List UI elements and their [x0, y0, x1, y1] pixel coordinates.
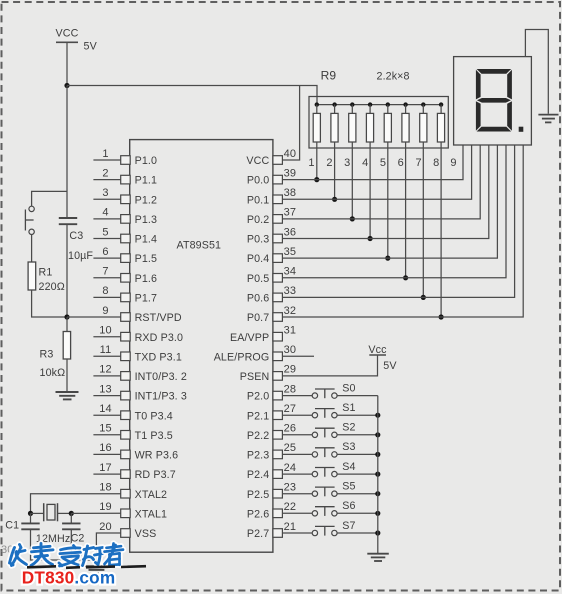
pin 5 (P1.4) box and number	[102, 226, 157, 245]
label S4	[342, 461, 355, 473]
svg-text:11: 11	[100, 344, 112, 356]
svg-text:INT0/P3. 2: INT0/P3. 2	[135, 371, 187, 383]
svg-text:R1: R1	[39, 267, 53, 279]
pin 31 (EA/VPP) box and number	[230, 325, 296, 344]
svg-text:P0.4: P0.4	[247, 253, 269, 265]
svg-text:1: 1	[308, 157, 314, 169]
resistor R3	[63, 332, 70, 360]
pin 14 (T0 P3.4) box and number	[99, 403, 173, 422]
wire pin 20 VSS to ground	[96, 533, 120, 566]
wire R3 to ground	[66, 359, 68, 392]
wire display common to ground	[525, 30, 548, 114]
svg-text:RD P3.7: RD P3.7	[135, 469, 176, 481]
svg-text:S0: S0	[342, 382, 355, 394]
wire stub pin 10	[93, 336, 120, 338]
pin 29 (PSEN) box and number	[240, 364, 296, 383]
svg-text:P2.1: P2.1	[247, 410, 269, 422]
wire P0.2 (pin 37) to display pin 3	[282, 145, 480, 219]
wire pin 29 to Vcc	[282, 355, 377, 376]
watermark black shadow streaks	[27, 566, 146, 568]
wire pin 19 XTAL1	[71, 512, 120, 514]
svg-text:10µF: 10µF	[68, 250, 93, 262]
svg-text:XTAL1: XTAL1	[135, 508, 167, 520]
pin 9 (RST/VPD) box and number	[102, 305, 182, 324]
wire stub pin 30	[282, 355, 314, 357]
svg-text:P0.5: P0.5	[247, 273, 269, 285]
pin 18 (XTAL2) box and number	[99, 482, 167, 501]
pin 36 (P0.3) box and number	[247, 226, 296, 245]
switch S2	[312, 428, 337, 437]
svg-text:VCC: VCC	[246, 155, 269, 167]
wire pin 24 to switch S4	[282, 473, 312, 475]
svg-text:3: 3	[102, 187, 108, 199]
svg-text:S7: S7	[342, 520, 355, 532]
wire R9 element 3 to P0.2 row	[351, 142, 353, 219]
svg-text:5V: 5V	[84, 41, 98, 53]
pin 40 (VCC) box and number	[246, 148, 296, 167]
pin 7 (P1.6) box and number	[102, 266, 157, 285]
resistor R9 element 5	[384, 105, 391, 142]
switch S4	[312, 468, 337, 477]
wire pin 26 to switch S2	[282, 434, 312, 436]
wire P0.0 (pin 39) to display pin 1	[282, 145, 463, 180]
svg-text:INT1/P3. 3: INT1/P3. 3	[135, 391, 187, 403]
resistor R9 element 2	[331, 105, 338, 142]
label R3	[40, 348, 54, 360]
svg-text:T0 P3.4: T0 P3.4	[135, 410, 173, 422]
wire R9 element 1 to P0.0 row	[316, 142, 318, 180]
svg-text:15: 15	[99, 423, 111, 435]
wire stub pin 16	[93, 453, 120, 455]
wire pin 25 to switch S3	[282, 453, 312, 455]
pin 17 (RD P3.7) box and number	[99, 462, 176, 481]
svg-text:10kΩ: 10kΩ	[40, 367, 66, 379]
capacitor C2	[62, 523, 80, 529]
svg-text:25: 25	[284, 442, 296, 454]
svg-text:38: 38	[284, 187, 296, 199]
svg-text:22: 22	[284, 501, 296, 513]
svg-text:2: 2	[102, 167, 108, 179]
svg-text:ALE/PROG: ALE/PROG	[214, 351, 270, 363]
display decimal point	[519, 127, 524, 132]
svg-text:16: 16	[99, 442, 111, 454]
watermark DT830.com	[22, 567, 116, 587]
wire RST node to chip pin 9	[67, 316, 121, 318]
svg-text:P1.0: P1.0	[135, 155, 157, 167]
svg-text:33: 33	[284, 285, 296, 297]
wire C1 to ground rail	[31, 529, 97, 560]
pin 37 (P0.2) box and number	[247, 207, 296, 226]
display segment C	[507, 101, 512, 131]
wire R9 element 5 to P0.4 row	[387, 142, 389, 258]
pin number 9 of R9	[450, 157, 456, 169]
svg-text:3: 3	[344, 157, 350, 169]
svg-text:6: 6	[398, 157, 404, 169]
pin number 6 of R9	[398, 157, 404, 169]
wire switch common rail	[377, 396, 379, 554]
resistor R9 element 4	[366, 105, 373, 142]
label S6	[342, 500, 355, 512]
svg-text:R9: R9	[321, 69, 337, 83]
svg-text:S4: S4	[342, 461, 355, 473]
pin 2 (P1.1) box and number	[102, 167, 157, 186]
svg-text:40: 40	[284, 148, 296, 160]
pin number 7 of R9	[415, 157, 421, 169]
svg-text:VCC: VCC	[56, 28, 79, 40]
wire pin 23 to switch S5	[282, 493, 312, 495]
value 10&#181;F	[68, 250, 93, 262]
svg-text:S2: S2	[342, 422, 355, 434]
display segment D	[477, 127, 512, 132]
wire switch S6 to common	[337, 512, 378, 514]
wire R9 common bus	[317, 104, 441, 106]
resistor R9 element 8	[437, 105, 444, 142]
junction node P0.3	[368, 236, 373, 241]
wire stub pin 12	[93, 375, 120, 377]
ground (VSS)	[85, 566, 108, 573]
svg-text:T1 P3.5: T1 P3.5	[135, 430, 173, 442]
junction node P0.0	[314, 177, 319, 182]
svg-text:S6: S6	[342, 500, 355, 512]
pin 16 (WR P3.6) box and number	[99, 442, 178, 461]
pin 19 (XTAL1) box and number	[99, 501, 167, 520]
svg-text:S5: S5	[342, 481, 355, 493]
wire stub pin 13	[93, 395, 120, 397]
wire stub pin 11	[93, 355, 120, 357]
svg-text:PSEN: PSEN	[240, 371, 270, 383]
value 2.2k&#215;8	[377, 71, 410, 83]
svg-text:R3: R3	[40, 348, 54, 360]
svg-text:7: 7	[415, 157, 421, 169]
wire node to C1	[30, 513, 32, 522]
pin 12 (INT0/P3. 2) box and number	[99, 364, 187, 383]
junction node P0.6	[421, 295, 426, 300]
svg-text:14: 14	[99, 403, 111, 415]
svg-text:36: 36	[284, 226, 296, 238]
svg-text:10: 10	[99, 325, 111, 337]
wire C2 to ground rail	[70, 529, 72, 560]
label S3	[342, 441, 355, 453]
junction bus node 7	[421, 102, 425, 106]
svg-text:18: 18	[99, 482, 111, 494]
junction bus node 8	[439, 102, 443, 106]
svg-text:20: 20	[99, 521, 111, 533]
svg-text:5: 5	[380, 157, 386, 169]
pin 27 (P2.1) box and number	[247, 403, 296, 422]
wire pin 27 to switch S1	[282, 414, 312, 416]
switch S7	[312, 526, 337, 535]
label C2	[71, 533, 85, 545]
pin 28 (P2.0) box and number	[247, 383, 296, 402]
wire VCC rail to reset branch	[32, 191, 67, 206]
wire P0.7 (pin 32) to display pin 8	[282, 145, 523, 317]
wire stub pin 5	[93, 238, 120, 240]
svg-text:TXD P3.1: TXD P3.1	[135, 351, 182, 363]
pin 23 (P2.5) box and number	[247, 482, 296, 501]
wire P0.4 (pin 35) to display pin 5	[282, 145, 497, 258]
pin 13 (INT1/P3. 3) box and number	[99, 383, 187, 402]
wire switch S3 to common	[337, 453, 378, 455]
junction bus node 2	[332, 102, 336, 106]
svg-text:RXD P3.0: RXD P3.0	[135, 332, 183, 344]
pin 25 (P2.3) box and number	[247, 442, 296, 461]
pin 3 (P1.2) box and number	[102, 187, 157, 206]
display segment E	[476, 101, 481, 131]
label S7	[342, 520, 355, 532]
svg-text:VSS: VSS	[135, 528, 157, 540]
svg-text:P0.3: P0.3	[247, 234, 269, 246]
wire R9 element 8 to P0.7 row	[440, 142, 442, 317]
pin 39 (P0.0) box and number	[247, 167, 296, 186]
junction node P0.2	[350, 216, 355, 221]
svg-text:P2.4: P2.4	[247, 469, 269, 481]
junction bus node 4	[368, 102, 372, 106]
label C1	[5, 519, 19, 531]
crystal Y1 12MHz	[44, 503, 58, 521]
label C3	[69, 230, 83, 242]
svg-text:39: 39	[284, 167, 296, 179]
display segment A	[477, 69, 512, 74]
pin 20 (VSS) box and number	[99, 521, 156, 540]
svg-text:31: 31	[284, 325, 296, 337]
svg-text:8: 8	[102, 285, 108, 297]
wire stub pin 8	[93, 296, 120, 298]
wire stub pin 2	[93, 179, 120, 181]
svg-text:7: 7	[102, 266, 108, 278]
svg-text:26: 26	[284, 423, 296, 435]
svg-text:P1.1: P1.1	[135, 175, 157, 187]
wire R9 element 2 to P0.1 row	[334, 142, 336, 199]
svg-text:P2.7: P2.7	[247, 528, 269, 540]
switch S0	[312, 389, 337, 398]
pin 34 (P0.5) box and number	[247, 266, 296, 285]
pin 32 (P0.7) box and number	[247, 305, 296, 324]
pin number 1 of R9	[308, 157, 314, 169]
wire switch S0 to common	[337, 395, 378, 397]
svg-text:4: 4	[102, 207, 108, 219]
stray watermark fragment 30	[1, 544, 13, 556]
switch S6	[312, 507, 337, 516]
junction node S1 common	[375, 413, 380, 418]
svg-text:P2.0: P2.0	[247, 391, 269, 403]
pin number 4 of R9	[362, 157, 368, 169]
pin 11 (TXD P3.1) box and number	[100, 344, 182, 363]
wire C3 to RST node	[66, 224, 68, 317]
wire R1 to RST node	[32, 290, 67, 317]
pin 26 (P2.2) box and number	[247, 423, 296, 442]
junction bus node 5	[386, 102, 390, 106]
junction node S4 common	[375, 472, 380, 477]
wire stub pin 14	[93, 414, 120, 416]
junction node S5 common	[375, 491, 380, 496]
wire node to C2	[70, 513, 72, 522]
resistor R9 element 7	[420, 105, 427, 142]
pin 22 (P2.6) box and number	[247, 501, 296, 520]
label R9	[321, 69, 337, 83]
svg-text:S1: S1	[342, 402, 355, 414]
svg-text:35: 35	[284, 246, 296, 258]
svg-text:2.2k×8: 2.2k×8	[377, 71, 410, 83]
svg-text:28: 28	[284, 383, 296, 395]
wire switch S5 to common	[337, 493, 378, 495]
wire VCC vertical drop	[66, 42, 68, 85]
junction node RST	[64, 314, 69, 319]
svg-text:8: 8	[433, 157, 439, 169]
power symbol Vcc (right)	[368, 344, 397, 372]
svg-text:P1.6: P1.6	[135, 273, 157, 285]
svg-text:32: 32	[284, 305, 296, 317]
junction node XTAL1/C2	[69, 511, 74, 516]
wire VCC rail to C3	[66, 86, 68, 219]
svg-text:P0.2: P0.2	[247, 214, 269, 226]
svg-text:EA/VPP: EA/VPP	[230, 332, 269, 344]
wire stub pin 3	[93, 198, 120, 200]
switch S3	[312, 448, 337, 457]
wire stub pin 4	[93, 218, 120, 220]
wire R9 element 6 to P0.5 row	[405, 142, 407, 278]
wire stub pin 1	[93, 159, 120, 161]
display segment G	[477, 98, 511, 103]
display segment F	[476, 70, 481, 100]
svg-text:DT830.com: DT830.com	[22, 567, 116, 587]
pin 24 (P2.4) box and number	[247, 462, 296, 481]
pin 33 (P0.6) box and number	[247, 285, 296, 304]
stray watermark fragment 30	[74, 552, 84, 564]
svg-text:2: 2	[326, 157, 332, 169]
junction node P0.1	[332, 197, 337, 202]
switch S5	[312, 487, 337, 496]
svg-text:13: 13	[99, 383, 111, 395]
svg-text:29: 29	[284, 364, 296, 376]
wire pin 21 to switch S7	[282, 532, 312, 534]
resistor network R9 outline	[309, 97, 448, 149]
svg-text:P0.1: P0.1	[247, 194, 269, 206]
wire P0.5 (pin 34) to display pin 6	[282, 145, 506, 278]
junction node XTAL2/C1	[28, 511, 33, 516]
pin number 8 of R9	[433, 157, 439, 169]
pin 35 (P0.4) box and number	[247, 246, 296, 265]
junction node P0.4	[385, 256, 390, 261]
wire VCC branch to chip pin 40	[282, 86, 299, 161]
7-segment display body	[454, 57, 532, 145]
svg-text:21: 21	[284, 521, 296, 533]
svg-text:37: 37	[284, 207, 296, 219]
resistor R9 element 1	[313, 105, 320, 142]
ground (switch common)	[367, 554, 389, 561]
junction bus node 3	[350, 102, 354, 106]
junction node S7 common	[375, 530, 380, 535]
svg-text:P1.3: P1.3	[135, 214, 157, 226]
wire P0.1 (pin 38) to display pin 2	[282, 145, 471, 199]
pin 8 (P1.7) box and number	[102, 285, 157, 304]
svg-text:P2.2: P2.2	[247, 430, 269, 442]
pin 4 (P1.3) box and number	[102, 207, 157, 226]
svg-text:23: 23	[284, 482, 296, 494]
ground (display common)	[538, 115, 558, 123]
junction node P0.5	[403, 275, 408, 280]
pin 1 (P1.0) box and number	[102, 148, 157, 167]
svg-text:6: 6	[102, 246, 108, 258]
svg-text:5: 5	[102, 226, 108, 238]
label S2	[342, 422, 355, 434]
wire crystal left lead	[31, 512, 44, 514]
pin 21 (P2.7) box and number	[247, 521, 296, 540]
junction node VCC rail	[64, 83, 69, 88]
svg-text:P0.0: P0.0	[247, 175, 269, 187]
svg-text:P2.6: P2.6	[247, 508, 269, 520]
svg-text:24: 24	[284, 462, 296, 474]
label R1	[39, 267, 53, 279]
svg-text:4: 4	[362, 157, 368, 169]
wire RST node to R3	[66, 317, 68, 332]
svg-text:P1.4: P1.4	[135, 234, 157, 246]
svg-text:27: 27	[284, 403, 296, 415]
svg-text:19: 19	[99, 501, 111, 513]
svg-text:P0.7: P0.7	[247, 312, 269, 324]
wire stub pin 6	[93, 257, 120, 259]
svg-text:P2.3: P2.3	[247, 450, 269, 462]
wire pin 28 to switch S0	[282, 395, 312, 397]
svg-text:P1.5: P1.5	[135, 253, 157, 265]
wire VCC rail to R9 pin 1	[67, 86, 317, 105]
svg-text:WR P3.6: WR P3.6	[135, 450, 179, 462]
junction bus node 1	[315, 102, 319, 106]
svg-text:17: 17	[99, 462, 111, 474]
wire crystal right lead	[58, 512, 72, 514]
label AT89S51	[177, 239, 222, 251]
display segment B	[507, 70, 512, 100]
value 220&#937;	[39, 281, 65, 293]
junction node S3 common	[375, 452, 380, 457]
pushbutton reset switch	[25, 206, 34, 234]
wire R9 element 4 to P0.3 row	[369, 142, 371, 239]
svg-text:XTAL2: XTAL2	[135, 489, 167, 501]
wire switch S2 to common	[337, 434, 378, 436]
pin 38 (P0.1) box and number	[247, 187, 296, 206]
wire stub pin 7	[93, 277, 120, 279]
wire button to R1	[31, 235, 33, 263]
value 12MHz	[36, 533, 70, 545]
svg-text:9: 9	[102, 305, 108, 317]
junction node S6 common	[375, 511, 380, 516]
wire stub pin 17	[93, 473, 120, 475]
capacitor C1	[21, 523, 39, 529]
svg-text:RST/VPD: RST/VPD	[135, 312, 182, 324]
wire P0.3 (pin 36) to display pin 4	[282, 145, 488, 239]
label S1	[342, 402, 355, 414]
resistor R9 element 3	[349, 105, 356, 142]
microcontroller U1 AT89S51 body	[130, 140, 273, 553]
capacitor C3	[59, 218, 77, 224]
label S0	[342, 382, 355, 394]
junction node S2 common	[375, 432, 380, 437]
svg-text:34: 34	[284, 266, 296, 278]
svg-text:C1: C1	[5, 519, 19, 531]
pin number 3 of R9	[344, 157, 350, 169]
svg-text:30: 30	[284, 344, 296, 356]
svg-text:S3: S3	[342, 441, 355, 453]
svg-text:P0.6: P0.6	[247, 293, 269, 305]
svg-text:AT89S51: AT89S51	[177, 239, 222, 251]
svg-text:C3: C3	[69, 230, 83, 242]
pin number 2 of R9	[326, 157, 332, 169]
wire R9 element 7 to P0.6 row	[422, 142, 424, 297]
svg-text:5V: 5V	[383, 360, 397, 372]
pin number 5 of R9	[380, 157, 386, 169]
svg-text:9: 9	[450, 157, 456, 169]
switch S1	[312, 409, 337, 418]
label S5	[342, 481, 355, 493]
